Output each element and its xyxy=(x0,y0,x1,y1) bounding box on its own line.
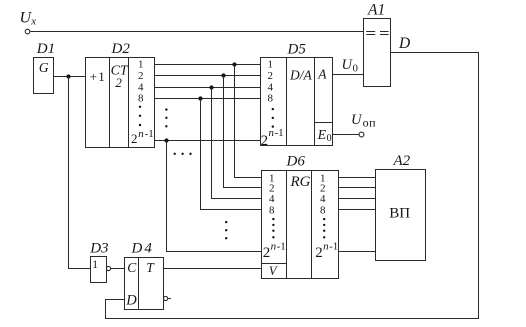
svg-text:8: 8 xyxy=(138,93,144,105)
DAC D5 xyxy=(261,41,333,149)
svg-text:0: 0 xyxy=(327,133,332,144)
junction node pin 2^n-1 tap xyxy=(164,138,168,142)
inverter D3 xyxy=(89,241,108,283)
wire junction down to D3 xyxy=(69,77,91,269)
wire D1 to D2 xyxy=(54,76,86,78)
svg-text:D: D xyxy=(398,35,410,52)
junction node pin2 tap xyxy=(221,73,225,77)
wire D3 to D4 C-input xyxy=(111,268,125,270)
junction node D1 output xyxy=(66,74,70,78)
register D6 xyxy=(262,153,339,278)
svg-text:n: n xyxy=(138,128,144,140)
wire D2 pin1 to D5 xyxy=(155,64,261,66)
wire D4 T-output to D6 V-input xyxy=(164,268,262,270)
inverter bubble D3 output xyxy=(106,266,110,270)
svg-text:D: D xyxy=(125,292,137,308)
ellipsis dots horizontal below D2 xyxy=(174,153,192,155)
junction node pin1 tap xyxy=(232,62,236,66)
generator D1 xyxy=(34,41,56,94)
svg-text:4: 4 xyxy=(269,193,275,205)
svg-text:C: C xyxy=(127,260,137,275)
svg-text:-1: -1 xyxy=(145,128,154,140)
svg-text:2: 2 xyxy=(263,245,271,261)
wire tap pin4 to D6 input 4 xyxy=(212,88,262,199)
svg-text:D2: D2 xyxy=(111,41,131,57)
svg-text:4: 4 xyxy=(320,193,326,205)
svg-text:оп: оп xyxy=(363,115,377,129)
svg-text:8: 8 xyxy=(268,93,274,105)
svg-text:A1: A1 xyxy=(367,1,385,18)
wire D feedback from A1 to D4 D-input xyxy=(106,53,479,319)
wire D6 out8 to A2 xyxy=(339,209,376,211)
wire D6 out1 to A2 xyxy=(339,177,376,179)
wire tap pin2 to D6 input 2 xyxy=(224,76,262,188)
wire tap pin8 to D6 input 8 xyxy=(201,99,262,210)
svg-text:D1: D1 xyxy=(36,41,55,57)
svg-text:A2: A2 xyxy=(393,153,411,169)
node U0 label xyxy=(342,57,358,75)
ellipsis dots between D2 and D5 vertical xyxy=(165,108,167,127)
flip-flop D4 xyxy=(125,241,164,310)
svg-text:2: 2 xyxy=(268,70,274,82)
comparator A1 xyxy=(364,1,391,86)
terminal Ux xyxy=(25,29,30,34)
svg-text:D5: D5 xyxy=(287,41,307,57)
node Ux label xyxy=(20,10,37,28)
svg-text:1: 1 xyxy=(268,59,274,71)
wire Ux to comparator A1 xyxy=(30,31,363,33)
wire E0 to reference terminal xyxy=(333,134,360,136)
ellipsis dots vertical among taps xyxy=(225,221,227,239)
svg-text:D6: D6 xyxy=(286,153,306,169)
svg-text:D3: D3 xyxy=(89,241,108,257)
wire D6 out4 to A2 xyxy=(339,198,376,200)
svg-text:2: 2 xyxy=(131,131,138,146)
svg-text:1: 1 xyxy=(92,259,98,271)
svg-text:E: E xyxy=(317,128,327,143)
svg-text:D4: D4 xyxy=(131,241,154,257)
junction node pin8 tap xyxy=(198,96,202,100)
svg-text:G: G xyxy=(39,60,49,75)
wire D2 pin8 to D5 xyxy=(155,98,261,100)
svg-text:8: 8 xyxy=(269,204,275,216)
wire D2 pin2 to D5 xyxy=(155,75,261,77)
counter D2 xyxy=(86,41,155,148)
svg-text:ВП: ВП xyxy=(389,205,410,221)
svg-text:2: 2 xyxy=(115,75,122,90)
svg-text:RG: RG xyxy=(290,174,311,190)
svg-text:-1: -1 xyxy=(277,241,286,253)
node Uop label xyxy=(351,112,376,130)
wire D6 out 2^n-1 to A2 xyxy=(339,251,376,253)
svg-text:2: 2 xyxy=(315,245,323,261)
inverter bubble D4 inverse output xyxy=(164,296,168,300)
svg-text:8: 8 xyxy=(320,204,326,216)
wire tap pin1 to D6 input 1 xyxy=(235,65,262,178)
wire U0 from D5 to A1 xyxy=(333,74,364,76)
wire D4 inverse output stub xyxy=(168,298,171,300)
svg-text:V: V xyxy=(269,264,278,278)
junction node pin4 tap xyxy=(209,85,213,89)
wire D2 pin4 to D5 xyxy=(155,87,261,89)
svg-text:+1: +1 xyxy=(90,69,106,84)
wire D6 out2 to A2 xyxy=(339,187,376,189)
svg-text:2: 2 xyxy=(138,70,144,82)
terminal Uop xyxy=(359,132,364,137)
svg-text:1: 1 xyxy=(138,59,144,71)
svg-text:-1: -1 xyxy=(329,241,338,253)
svg-text:0: 0 xyxy=(353,64,358,75)
svg-text:D/A: D/A xyxy=(289,67,313,82)
svg-text:2: 2 xyxy=(261,133,269,149)
svg-text:U: U xyxy=(351,112,363,128)
svg-text:-1: -1 xyxy=(275,127,284,139)
svg-text:A: A xyxy=(317,67,327,82)
wire D2 pin 2^n-1 to D5 xyxy=(155,140,261,142)
svg-text:T: T xyxy=(146,260,155,275)
svg-text:x: x xyxy=(30,16,36,28)
output device A2 xyxy=(376,153,426,261)
wire tap 2^n-1 to D6 input 2^n-1 xyxy=(167,141,262,252)
